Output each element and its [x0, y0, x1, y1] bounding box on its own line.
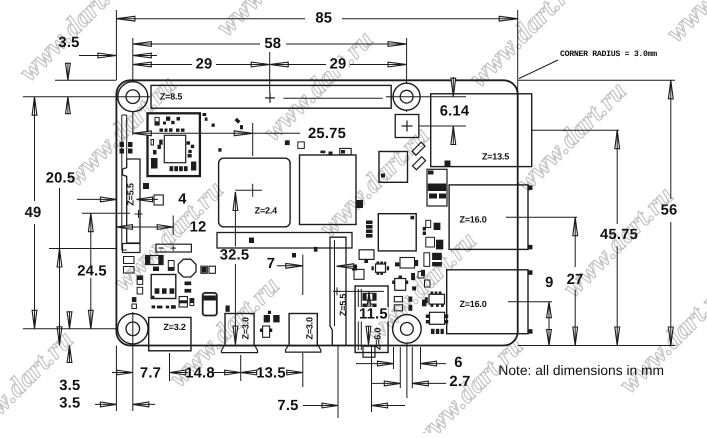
svg-text:27: 27 — [567, 272, 584, 288]
svg-text:2.7: 2.7 — [449, 374, 470, 390]
svg-text:6.14: 6.14 — [440, 104, 470, 120]
svg-text:24.5: 24.5 — [77, 264, 107, 280]
svg-text:29: 29 — [330, 57, 347, 73]
svg-text:7.5: 7.5 — [277, 398, 298, 414]
svg-text:13.5: 13.5 — [256, 366, 286, 382]
svg-text:3.5: 3.5 — [59, 395, 80, 411]
svg-text:Note: all dimensions in mm: Note: all dimensions in mm — [498, 363, 664, 378]
svg-text:7: 7 — [267, 256, 275, 272]
svg-text:7.7: 7.7 — [140, 366, 161, 382]
svg-text:9: 9 — [545, 275, 553, 291]
svg-text:4: 4 — [178, 191, 187, 207]
svg-text:85: 85 — [315, 11, 332, 27]
svg-text:Z=2.4: Z=2.4 — [255, 205, 277, 215]
svg-text:Z=16.0: Z=16.0 — [459, 214, 486, 224]
svg-text:12: 12 — [190, 219, 207, 235]
svg-text:32.5: 32.5 — [220, 247, 250, 263]
svg-text:25.75: 25.75 — [308, 126, 346, 142]
svg-text:Z=3.0: Z=3.0 — [240, 317, 250, 339]
svg-text:58: 58 — [264, 36, 281, 52]
svg-text:Z=3.2: Z=3.2 — [163, 322, 185, 332]
svg-text:Z=5.5: Z=5.5 — [125, 183, 135, 205]
svg-text:56: 56 — [661, 202, 678, 218]
svg-text:20.5: 20.5 — [46, 171, 76, 187]
svg-text:Z=16.0: Z=16.0 — [459, 299, 486, 309]
svg-text:49: 49 — [25, 205, 42, 221]
svg-text:Z=3.0: Z=3.0 — [305, 317, 315, 339]
svg-text:14.8: 14.8 — [185, 366, 215, 382]
svg-text:3.5: 3.5 — [58, 35, 79, 51]
svg-text:11.5: 11.5 — [359, 306, 388, 322]
svg-text:CORNER RADIUS = 3.0mm: CORNER RADIUS = 3.0mm — [560, 50, 657, 59]
svg-text:Z=8.5: Z=8.5 — [160, 91, 182, 101]
svg-text:29: 29 — [196, 57, 213, 73]
svg-text:Z=5.5: Z=5.5 — [338, 294, 348, 316]
svg-text:6: 6 — [454, 355, 462, 371]
svg-text:Z=13.5: Z=13.5 — [482, 151, 509, 161]
svg-text:3.5: 3.5 — [59, 378, 80, 394]
svg-text:45.75: 45.75 — [600, 227, 638, 243]
